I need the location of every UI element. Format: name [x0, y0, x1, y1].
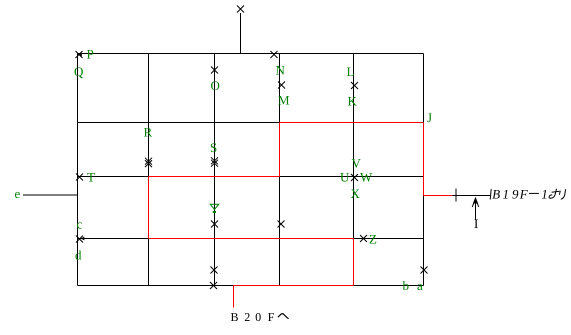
x mark corner PQ — [76, 51, 83, 58]
red wire row y=238.5 middle part — [149, 238, 354, 240]
node K — [348, 97, 357, 106]
node Q — [75, 67, 84, 78]
wire right connector black segment — [453, 195, 491, 197]
wire top stub — [240, 13, 242, 54]
node V — [352, 159, 361, 168]
arrowhead at top-left corner — [78, 53, 82, 57]
x mark NM column — [278, 82, 285, 89]
wire row y=176.5 — [78, 176, 424, 178]
node J — [427, 113, 432, 122]
node d — [75, 250, 81, 259]
wire bottom edge — [78, 285, 424, 287]
x mark bottom edge x213 — [210, 282, 217, 289]
node a — [417, 284, 422, 290]
red wire stub down to B20F — [233, 286, 235, 308]
red wire x=148.5 from 176 to 238 — [148, 177, 150, 239]
node M — [278, 96, 289, 105]
label 0 of B20F — [256, 313, 261, 321]
red wire connector y=195.5 — [424, 195, 453, 197]
label 9 of B19F-1 italic — [512, 190, 518, 199]
node S — [211, 143, 217, 152]
x mark left end row 239 — [76, 236, 83, 243]
x mark col 214 y224 — [211, 221, 218, 228]
x mark O column — [211, 67, 218, 74]
node L — [347, 67, 354, 76]
double x mark S column — [211, 157, 218, 166]
red wire x=353.5 from 238 to 285 — [353, 239, 355, 286]
red wire right edge 122-195 — [423, 123, 425, 196]
wire top edge — [78, 53, 424, 55]
wire vertical grid x=214.5 — [214, 54, 216, 286]
x mark UW junction — [351, 174, 358, 181]
wire vertical grid x=279.5 — [279, 54, 281, 286]
wire row y=122.5 — [78, 122, 424, 124]
label 1b of B19F-1 italic — [542, 190, 547, 199]
label F of B20F — [268, 313, 274, 321]
node P — [87, 50, 93, 59]
x mark T junction — [76, 174, 83, 181]
node W — [360, 173, 372, 182]
tick on right connector — [455, 189, 457, 202]
node R — [144, 128, 152, 137]
x mark right edge y270 — [421, 267, 428, 274]
red wire row y=122.5 right part — [280, 122, 424, 124]
glyph ri — [559, 189, 565, 199]
node U — [340, 173, 349, 182]
node N — [276, 66, 285, 75]
arrow up at right connector — [475, 203, 477, 220]
red wire row y=176.5 middle part — [149, 176, 280, 178]
x mark top stub — [237, 6, 244, 13]
dash in B19F-1 — [529, 192, 539, 194]
wire vertical grid x=148.5 — [148, 54, 150, 286]
wire left edge — [77, 54, 79, 286]
glyph he of B20F-he — [278, 314, 289, 319]
node c — [77, 222, 82, 228]
wire stub e — [23, 194, 78, 196]
label I — [474, 219, 477, 228]
node T — [87, 173, 94, 182]
wire row y=238.5 — [78, 238, 424, 240]
wire right edge — [423, 54, 425, 286]
arrowhead at left end of row 239 — [81, 237, 85, 241]
node Z — [370, 235, 377, 244]
node O — [211, 81, 219, 90]
red wire bottom edge part — [234, 285, 354, 287]
x mark on top edge near N — [271, 51, 278, 58]
x mark Z — [360, 235, 367, 242]
leading bar of B19F label — [490, 189, 491, 200]
x mark col 280 y224 — [278, 221, 285, 228]
label 2 of B20F — [245, 313, 250, 321]
arrowhead whiskers — [472, 202, 479, 207]
node X — [351, 189, 360, 198]
green triangle symbol on col 214 — [210, 204, 218, 212]
x mark col 214 y270 — [211, 267, 218, 274]
glyph yo — [549, 189, 559, 198]
node b — [403, 281, 409, 290]
node e — [15, 192, 20, 198]
label 1a of B19F-1 italic — [503, 190, 508, 199]
x mark LK column — [351, 82, 358, 89]
red wire x=279.5 from 122 to 176 — [279, 123, 281, 177]
wire vertical grid x=353.5 — [353, 54, 355, 286]
double x mark R column — [145, 158, 152, 167]
label B of B19F-1 italic — [492, 190, 500, 199]
label F of B19F-1 italic — [520, 190, 528, 199]
label B of B20F — [231, 313, 238, 321]
